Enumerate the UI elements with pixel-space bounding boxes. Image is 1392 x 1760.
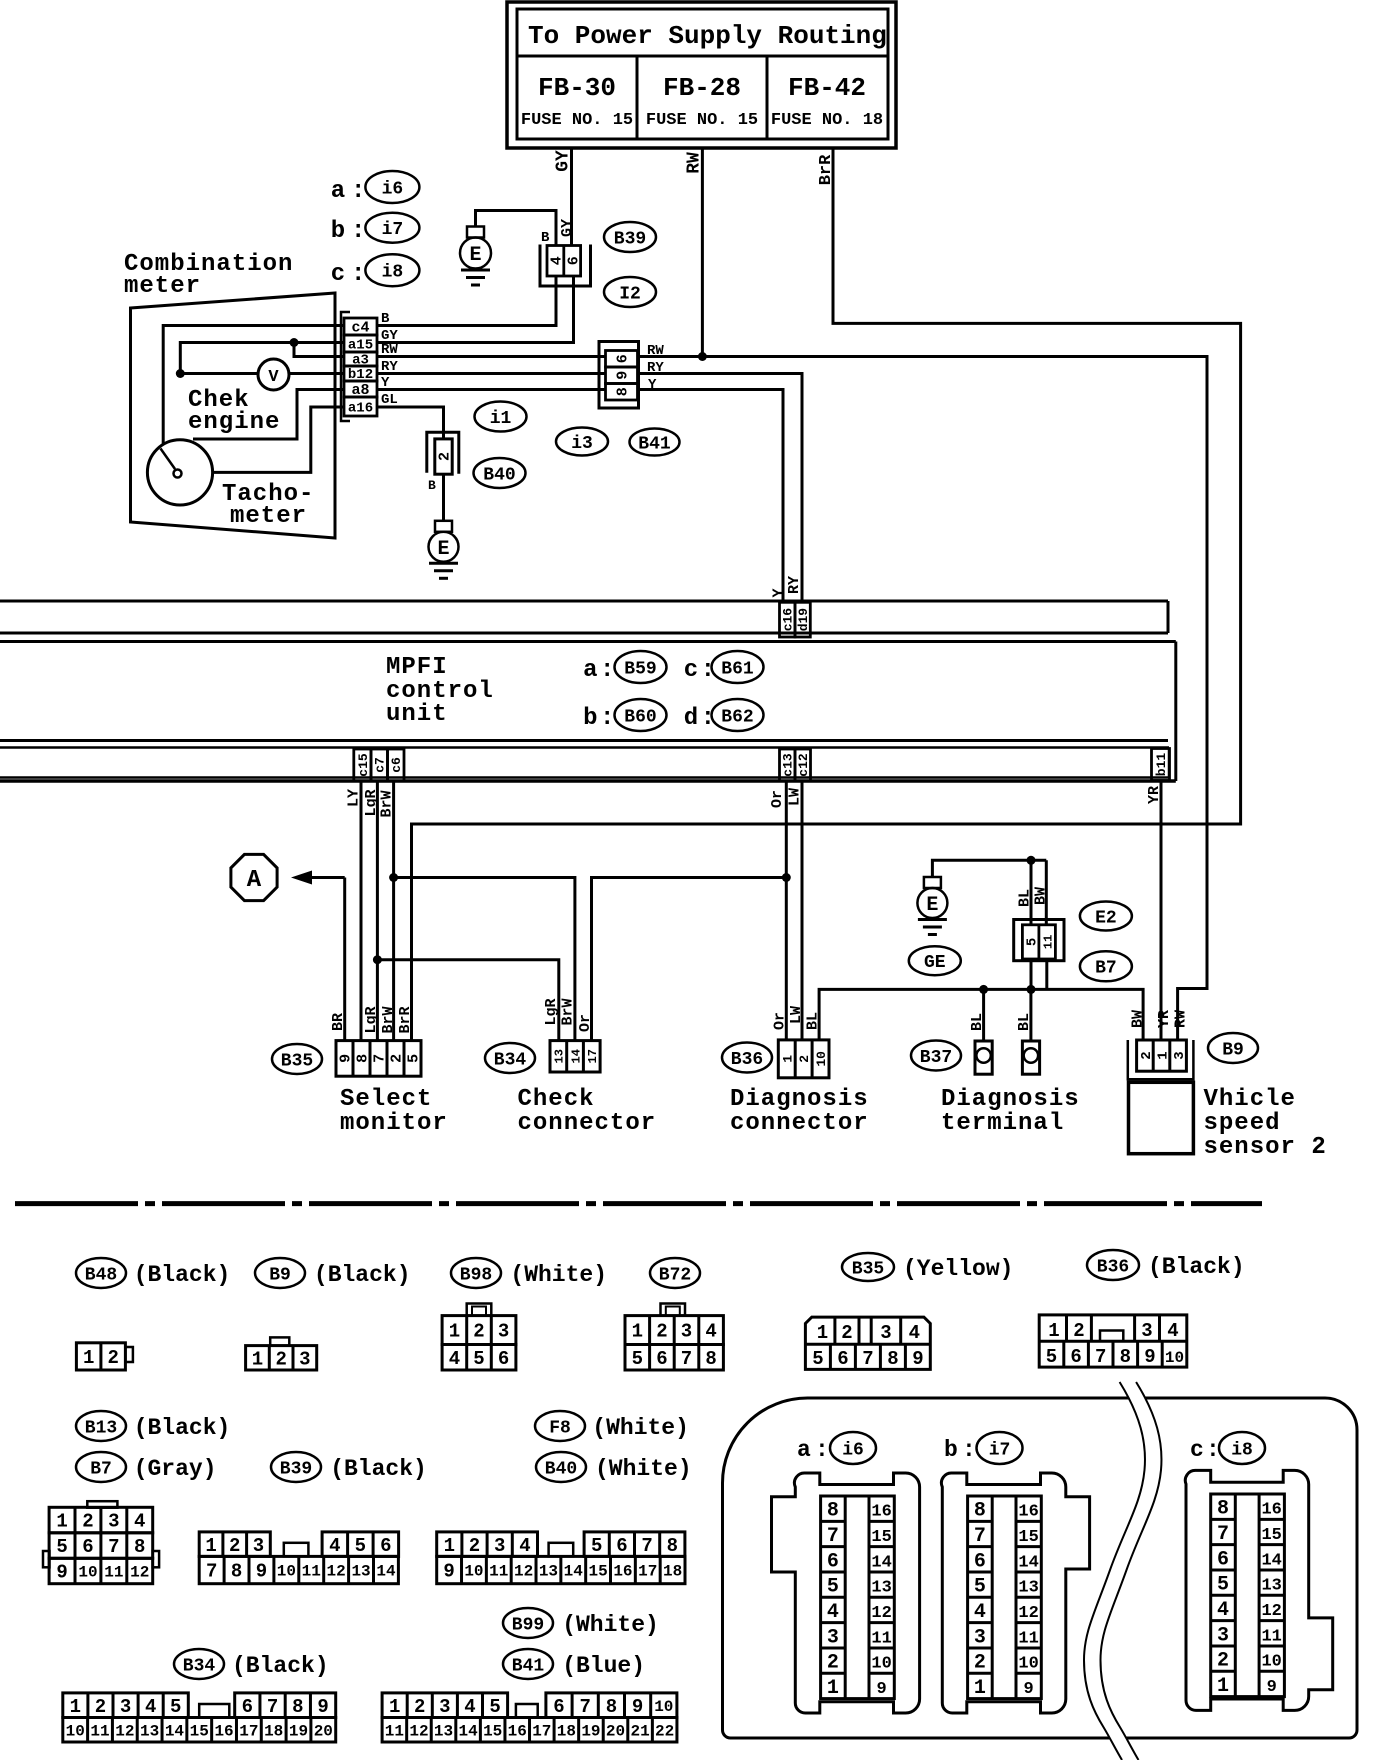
svg-text:5: 5: [406, 1054, 423, 1063]
svg-text:16: 16: [214, 1722, 233, 1740]
svg-text:19: 19: [581, 1722, 600, 1740]
combination meter outline: [131, 293, 336, 538]
svg-text:i6: i6: [842, 1440, 864, 1460]
svg-text:14: 14: [165, 1722, 185, 1740]
MPFI pin c16: [771, 588, 796, 637]
diagnosis connector text: [730, 1086, 869, 1137]
svg-text:I2: I2: [619, 284, 641, 304]
svg-text:(Yellow): (Yellow): [903, 1256, 1013, 1282]
svg-text:7: 7: [372, 1054, 389, 1063]
label B39 (Black): [271, 1452, 427, 1482]
wire LgR from c7 to B35 pin 7: [363, 781, 380, 1041]
label c: i8: [1190, 1432, 1265, 1464]
label B98 (White): [451, 1258, 607, 1288]
svg-text:YR: YR: [1156, 1010, 1173, 1028]
meter internal wire a8 to tachometer: [193, 390, 344, 440]
wire GY from pin 6 to meter pin a15: [377, 276, 574, 343]
svg-text::: :: [1206, 1437, 1220, 1463]
svg-text:4: 4: [134, 1511, 145, 1533]
svg-text:20: 20: [314, 1722, 333, 1740]
svg-text:8: 8: [974, 1500, 986, 1523]
svg-text:c6: c6: [389, 757, 404, 773]
svg-text:7: 7: [108, 1536, 119, 1558]
meter pin a16: [344, 397, 377, 417]
MPFI pin b11: [1152, 749, 1170, 781]
svg-text:11: 11: [489, 1563, 508, 1581]
MPFI pin c12: [795, 749, 811, 781]
meter internal wire b12 through lamp: [180, 372, 344, 375]
svg-text:B99: B99: [512, 1615, 544, 1635]
label B9 (Black): [255, 1258, 411, 1288]
branch BrW to check connector pin 14: [394, 878, 575, 1041]
svg-text:B39: B39: [280, 1459, 312, 1479]
svg-text:2: 2: [82, 1511, 93, 1533]
svg-text:8: 8: [1120, 1346, 1131, 1368]
svg-text:1: 1: [70, 1696, 81, 1718]
svg-text:B: B: [541, 230, 550, 246]
svg-text:B35: B35: [852, 1259, 884, 1279]
svg-text:meter: meter: [230, 503, 307, 530]
svg-text:1: 1: [56, 1511, 67, 1533]
svg-text:3: 3: [494, 1535, 505, 1557]
svg-text:11: 11: [871, 1629, 891, 1648]
svg-text:10: 10: [654, 1698, 673, 1716]
svg-text:B61: B61: [721, 659, 754, 679]
svg-text:E: E: [469, 244, 481, 267]
svg-text:6: 6: [553, 1696, 564, 1718]
svg-text:6: 6: [1217, 1548, 1229, 1571]
svg-text:7: 7: [206, 1561, 217, 1583]
svg-text:c: c: [684, 657, 698, 684]
separator dash-dot line: [15, 1201, 1262, 1206]
svg-text:14: 14: [376, 1563, 396, 1581]
svg-text:c16: c16: [781, 608, 796, 632]
wire BL to diagnosis terminal 1: [969, 989, 986, 1041]
svg-text:5: 5: [812, 1348, 823, 1370]
connector B13 pinout: [43, 1501, 159, 1584]
svg-text:4: 4: [329, 1535, 340, 1557]
svg-text:11: 11: [104, 1564, 123, 1582]
MPFI pin c13: [780, 749, 796, 781]
svg-text:BR: BR: [330, 1013, 347, 1031]
svg-text:i7: i7: [382, 220, 404, 240]
node A: [231, 854, 277, 900]
svg-text:2: 2: [473, 1321, 484, 1343]
svg-text:1: 1: [205, 1535, 216, 1557]
svg-text:15: 15: [190, 1722, 209, 1740]
svg-text:11: 11: [385, 1722, 404, 1740]
svg-text:12: 12: [1018, 1604, 1038, 1623]
connector E2/B7 (pins 5,11): [1014, 887, 1064, 961]
connector B98 pinout: [442, 1304, 516, 1371]
svg-text:5: 5: [473, 1348, 484, 1370]
svg-text:3: 3: [974, 1626, 986, 1649]
MPFI pin c6: [388, 749, 405, 781]
arrow to node A: [291, 871, 345, 885]
svg-text:5: 5: [1025, 938, 1041, 946]
svg-text:Or: Or: [577, 1014, 594, 1032]
svg-text:b: b: [583, 705, 597, 732]
svg-text:b: b: [331, 218, 345, 245]
svg-text:GE: GE: [924, 953, 946, 973]
svg-text:9: 9: [56, 1562, 67, 1584]
svg-text:1: 1: [1155, 1051, 1171, 1059]
diagnosis terminal 1: [975, 1041, 992, 1074]
svg-text:2: 2: [656, 1321, 667, 1343]
svg-text:22: 22: [655, 1722, 674, 1740]
svg-text:12: 12: [115, 1722, 134, 1740]
check connector text: [518, 1086, 657, 1137]
svg-text:To Power Supply Routing: To Power Supply Routing: [528, 21, 887, 51]
svg-text:4: 4: [549, 256, 566, 265]
svg-text:(Black): (Black): [134, 1262, 231, 1288]
connector i7 pin grid: [968, 1496, 1042, 1700]
svg-text:4: 4: [519, 1535, 530, 1557]
wire BL pin 5 down to BL net: [1030, 959, 1033, 989]
svg-text:13: 13: [1018, 1579, 1038, 1598]
meter pin b12: [344, 366, 377, 383]
ground wire E: [932, 860, 1046, 877]
svg-text:9: 9: [912, 1348, 923, 1370]
svg-text:16: 16: [1261, 1501, 1281, 1520]
svg-text:4: 4: [705, 1321, 716, 1343]
label B9: [1208, 1033, 1258, 1063]
svg-text:B35: B35: [281, 1051, 313, 1071]
label a: i6: [797, 1432, 876, 1464]
label B34: [485, 1043, 535, 1073]
MPFI pin d19: [786, 576, 811, 637]
connector B39 pinout: [199, 1532, 398, 1584]
svg-text:8: 8: [887, 1348, 898, 1370]
svg-text:BrR: BrR: [397, 1006, 414, 1033]
svg-text:(White): (White): [562, 1612, 659, 1638]
svg-text:i3: i3: [571, 434, 593, 454]
svg-text:LgR: LgR: [543, 998, 560, 1025]
wire RW pin6 to B9 sensor: [638, 343, 1208, 1040]
svg-text:Check: Check: [518, 1086, 595, 1113]
svg-text:a: a: [797, 1437, 811, 1463]
svg-text:10: 10: [1165, 1349, 1184, 1367]
junction LgR: [373, 955, 382, 964]
svg-text:9: 9: [338, 1054, 355, 1063]
svg-text:11: 11: [1261, 1627, 1281, 1646]
svg-text:7: 7: [827, 1525, 839, 1548]
svg-text:connector: connector: [730, 1110, 869, 1137]
svg-text:16: 16: [1018, 1503, 1038, 1522]
label d: B62: [684, 699, 764, 732]
node b: i7: [331, 213, 420, 245]
svg-text:9: 9: [1267, 1678, 1277, 1697]
connector B9 pinout: [246, 1337, 317, 1370]
svg-text:10: 10: [277, 1563, 296, 1581]
svg-text:9: 9: [1144, 1346, 1155, 1368]
svg-text:b11: b11: [1154, 753, 1169, 777]
label B35 (Yellow): [842, 1253, 1013, 1282]
fuse FB-42: [767, 56, 888, 139]
wire BR from B35 pin 9 to node A: [330, 878, 347, 1041]
connector F8 pinout: [437, 1532, 685, 1584]
svg-text:11: 11: [302, 1563, 321, 1581]
svg-text:21: 21: [630, 1722, 649, 1740]
svg-text:1: 1: [780, 1055, 795, 1063]
svg-text:10: 10: [78, 1564, 97, 1582]
svg-text:BrW: BrW: [379, 790, 396, 817]
svg-text:18: 18: [557, 1722, 576, 1740]
svg-text:3: 3: [299, 1348, 310, 1370]
svg-text:5: 5: [591, 1535, 602, 1557]
svg-text:i8: i8: [1231, 1440, 1253, 1460]
svg-text:a: a: [583, 657, 597, 684]
svg-text::: :: [600, 705, 614, 732]
svg-text:LgR: LgR: [363, 1006, 380, 1033]
svg-text:B36: B36: [731, 1050, 763, 1070]
wire RW from FB-28 down to junction: [684, 148, 704, 357]
label B13 (Black): [76, 1411, 230, 1441]
meter internal wire from c4 to tachometer: [163, 326, 344, 445]
svg-text::: :: [815, 1437, 829, 1463]
svg-text:4: 4: [827, 1601, 839, 1624]
svg-text:17: 17: [239, 1722, 258, 1740]
svg-text:3: 3: [827, 1626, 839, 1649]
svg-text:1: 1: [444, 1535, 455, 1557]
MPFI pin c7: [371, 749, 388, 781]
node a: i6: [331, 171, 420, 205]
svg-text:3: 3: [880, 1322, 891, 1344]
svg-text:1: 1: [632, 1321, 643, 1343]
svg-text:2: 2: [275, 1348, 286, 1370]
svg-text:B41: B41: [512, 1656, 545, 1676]
svg-text:B7: B7: [90, 1459, 112, 1479]
label a: B59: [583, 651, 666, 684]
svg-text:8: 8: [606, 1696, 617, 1718]
svg-text:Y: Y: [771, 588, 788, 597]
svg-text:9: 9: [443, 1561, 454, 1583]
svg-text:12: 12: [130, 1564, 149, 1582]
label i3: [556, 428, 608, 456]
svg-text:2: 2: [841, 1322, 852, 1344]
svg-text:2: 2: [1217, 1650, 1229, 1673]
combination meter label: [124, 251, 293, 300]
svg-text:(Black): (Black): [314, 1262, 411, 1288]
svg-text:8: 8: [292, 1696, 303, 1718]
wire BrR from FB-42 to select monitor B35 pin 5: [412, 148, 1241, 1041]
svg-text:5: 5: [827, 1576, 839, 1599]
svg-text:6: 6: [974, 1550, 986, 1573]
svg-text:7: 7: [862, 1348, 873, 1370]
wire B to ground: [442, 474, 445, 521]
connector B34 pinout: [63, 1693, 336, 1742]
connector B36 pinout: [1039, 1315, 1187, 1368]
svg-text:c: c: [331, 261, 345, 288]
svg-text:GY: GY: [559, 219, 576, 237]
vehicle speed sensor text: [1204, 1086, 1327, 1161]
meter internal wire a16 to tachometer: [212, 407, 344, 472]
meter pin a15: [344, 335, 377, 354]
svg-text:B9: B9: [269, 1265, 291, 1285]
svg-text:1: 1: [1048, 1320, 1059, 1342]
svg-text:FB-42: FB-42: [788, 73, 866, 103]
svg-text:5: 5: [974, 1576, 986, 1599]
label B36 (Black): [1087, 1250, 1245, 1280]
svg-text:8: 8: [827, 1500, 839, 1523]
wire Y from meter a8 to pin 8: [377, 388, 606, 391]
svg-text:16: 16: [871, 1503, 891, 1522]
branch Or to check connector pin 17: [592, 878, 787, 1041]
svg-text:14: 14: [564, 1563, 584, 1581]
svg-text:LY: LY: [346, 789, 363, 807]
svg-text:5: 5: [1217, 1574, 1229, 1597]
svg-text:17: 17: [586, 1049, 600, 1063]
svg-text:2: 2: [95, 1696, 106, 1718]
ground E below B40: [429, 521, 459, 579]
label B34 (Black): [174, 1649, 329, 1679]
svg-text:b: b: [944, 1437, 958, 1463]
svg-text:1: 1: [817, 1322, 828, 1344]
svg-text:16: 16: [613, 1563, 632, 1581]
svg-text:10: 10: [814, 1051, 829, 1067]
svg-text:13: 13: [871, 1579, 891, 1598]
svg-text:8: 8: [134, 1536, 145, 1558]
label B48 (Black): [76, 1258, 230, 1288]
connector B40 (pin 2): [427, 432, 459, 493]
label B99 (White): [503, 1608, 659, 1638]
svg-text:unit: unit: [386, 701, 448, 728]
svg-text:6: 6: [380, 1535, 391, 1557]
svg-text:5: 5: [1046, 1346, 1057, 1368]
svg-text:6: 6: [1070, 1346, 1081, 1368]
svg-text:13: 13: [140, 1722, 159, 1740]
connector i6 outline: [772, 1473, 920, 1713]
connector i7 outline: [941, 1473, 1089, 1713]
svg-text:LgR: LgR: [363, 789, 380, 816]
svg-text:6: 6: [827, 1550, 839, 1573]
svg-text:17: 17: [532, 1722, 551, 1740]
svg-text:2: 2: [797, 1055, 812, 1063]
svg-text:20: 20: [606, 1722, 625, 1740]
svg-text:17: 17: [638, 1563, 657, 1581]
ground E (combination meter illumination): [460, 227, 491, 286]
MPFI control unit label: [386, 654, 494, 728]
junction BL at connector 5: [1027, 985, 1036, 994]
wire LY from c15 to B35 pin 8: [346, 781, 363, 1041]
svg-text:a16: a16: [348, 401, 373, 417]
svg-text:terminal: terminal: [941, 1110, 1064, 1137]
svg-text:(Black): (Black): [232, 1653, 329, 1679]
label B41 (Blue): [503, 1649, 645, 1679]
svg-text:6: 6: [565, 256, 582, 265]
svg-text:3: 3: [439, 1696, 450, 1718]
svg-text:BL: BL: [1016, 1013, 1033, 1031]
svg-text:16: 16: [508, 1722, 527, 1740]
svg-text:6: 6: [616, 1535, 627, 1557]
wire RY pin9 to MPFI d19: [638, 360, 803, 602]
svg-text:19: 19: [289, 1722, 308, 1740]
svg-text:1: 1: [389, 1696, 400, 1718]
svg-text:F8: F8: [549, 1418, 571, 1438]
svg-text:11: 11: [90, 1722, 109, 1740]
svg-text::: :: [962, 1437, 976, 1463]
svg-text:BL: BL: [969, 1013, 986, 1031]
MPFI control unit body: [0, 642, 1176, 782]
svg-text:9: 9: [317, 1696, 328, 1718]
wire B from pin 4 to meter pin c4: [377, 276, 556, 326]
meter pin a8: [344, 381, 377, 399]
svg-text:B40: B40: [545, 1459, 577, 1479]
svg-text:10: 10: [464, 1563, 483, 1581]
svg-text:2: 2: [1073, 1320, 1084, 1342]
svg-text:2: 2: [974, 1652, 986, 1675]
wire BrW from c6 to B35 pin 2: [379, 781, 396, 1041]
svg-text:d: d: [684, 705, 698, 732]
svg-text:c15: c15: [356, 753, 371, 777]
svg-text:14: 14: [1261, 1551, 1281, 1570]
svg-text:meter: meter: [124, 273, 201, 300]
svg-text:RW: RW: [684, 152, 704, 174]
svg-text:1: 1: [827, 1677, 839, 1700]
svg-text:9: 9: [256, 1561, 267, 1583]
svg-text:B: B: [428, 478, 436, 493]
svg-text:9: 9: [1023, 1680, 1033, 1699]
svg-text:B60: B60: [624, 707, 656, 727]
svg-text:A: A: [247, 867, 262, 894]
svg-text:10: 10: [871, 1655, 891, 1674]
connector I2 (pins 4,6): [540, 219, 591, 286]
svg-text:(White): (White): [595, 1456, 692, 1482]
svg-text:FUSE NO. 15: FUSE NO. 15: [521, 111, 633, 130]
svg-text:Or: Or: [772, 1012, 789, 1030]
label B72: [650, 1258, 700, 1288]
wire BL from B36 pin 10: [819, 989, 1143, 1040]
fuse FB-28: [637, 56, 767, 139]
svg-text:E2: E2: [1095, 908, 1117, 928]
vehicle speed sensor 2 body: [1129, 1082, 1194, 1153]
node c: i8: [331, 254, 420, 288]
svg-text:d19: d19: [796, 608, 811, 632]
svg-text:10: 10: [66, 1722, 85, 1740]
svg-text:sensor 2: sensor 2: [1204, 1134, 1327, 1161]
svg-text:B40: B40: [483, 465, 515, 485]
svg-text:8: 8: [705, 1348, 716, 1370]
svg-text:c: c: [1190, 1437, 1204, 1463]
svg-text:1: 1: [83, 1347, 94, 1369]
svg-text:4: 4: [449, 1348, 460, 1370]
diagnosis terminal text: [941, 1086, 1080, 1137]
connector B34 check connector: [550, 1041, 600, 1072]
svg-text:B13: B13: [85, 1418, 117, 1438]
wire Y pin8 to MPFI c16: [638, 377, 784, 602]
svg-text:BW: BW: [1130, 1010, 1147, 1028]
svg-text:FUSE NO. 15: FUSE NO. 15: [646, 111, 758, 130]
svg-text:a: a: [331, 178, 345, 205]
connector i6 pin grid: [821, 1496, 895, 1700]
wire LW from c12 to B36 pin 2: [787, 781, 804, 1040]
svg-text:7: 7: [1217, 1523, 1229, 1546]
svg-text:FUSE NO. 18: FUSE NO. 18: [771, 111, 883, 130]
svg-text:7: 7: [267, 1696, 278, 1718]
svg-text:B59: B59: [624, 659, 656, 679]
svg-text:B34: B34: [183, 1656, 216, 1676]
svg-text:14: 14: [1018, 1553, 1038, 1572]
meter connector bracket: [341, 312, 350, 421]
svg-text:4: 4: [1217, 1599, 1229, 1622]
wire RW from meter a3 to pin 6: [377, 355, 606, 358]
connector B36 diagnosis connector: [778, 1040, 829, 1078]
svg-text::: :: [351, 218, 365, 245]
svg-text:1: 1: [449, 1321, 460, 1343]
label B7 (Gray): [76, 1452, 217, 1482]
svg-text:BrR: BrR: [817, 154, 836, 185]
svg-text:YR: YR: [1146, 786, 1163, 804]
